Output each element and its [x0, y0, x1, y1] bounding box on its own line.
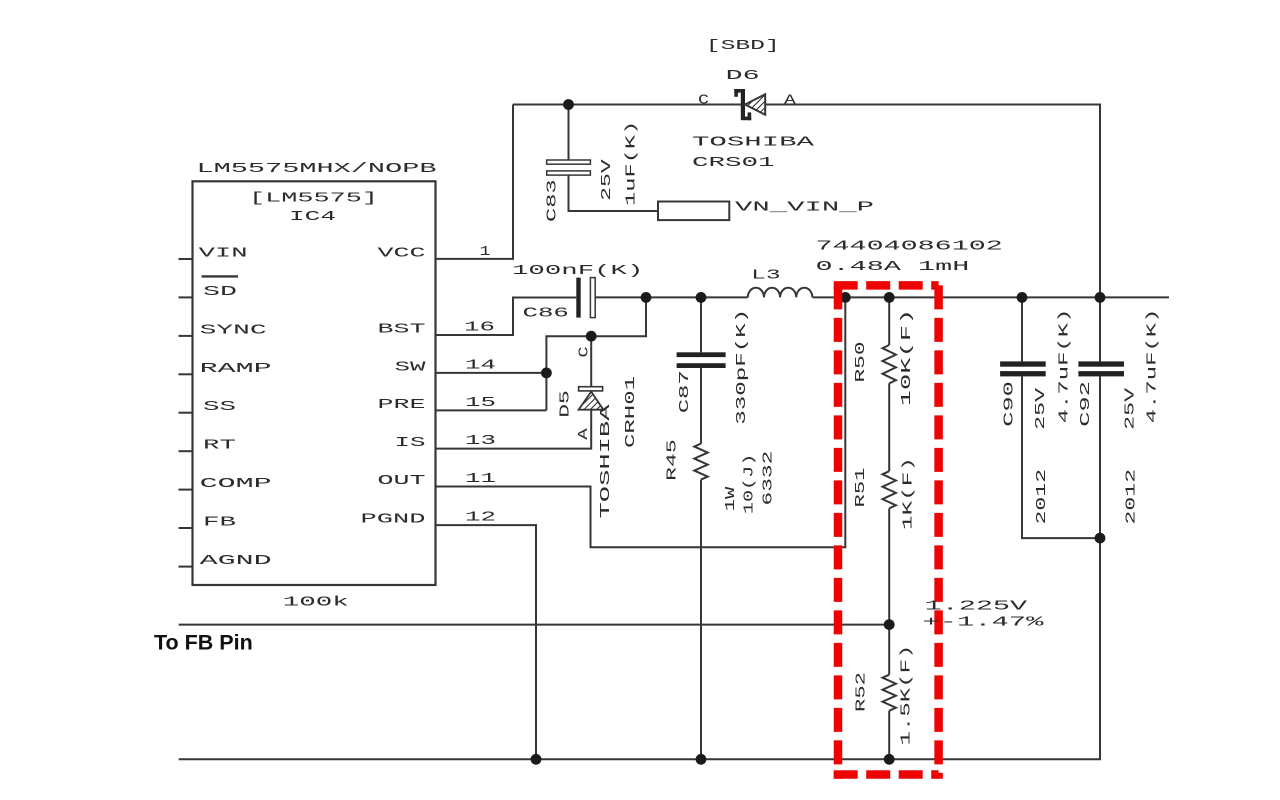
svg-text:6332: 6332 [761, 451, 776, 506]
pin stub SYNC [179, 335, 193, 337]
svg-text:TOSHIBA: TOSHIBA [692, 135, 816, 150]
wire pin11 OUT to output node [436, 297, 846, 547]
svg-text:25V: 25V [600, 158, 615, 201]
wire R51 to FB node [888, 509, 890, 625]
wire pin14 SW [436, 372, 547, 374]
svg-text:4.7uF(K): 4.7uF(K) [1058, 309, 1073, 424]
svg-text:L3: L3 [751, 268, 780, 283]
svg-text:D5: D5 [558, 390, 573, 418]
svg-text:COMP: COMP [200, 477, 272, 492]
wire R50 to R51 [888, 383, 890, 471]
svg-text:10K(F): 10K(F) [900, 309, 915, 407]
capacitor C86 plate right [590, 278, 595, 318]
capacitor C87 plate top [677, 352, 726, 357]
svg-text:TOSHIBA: TOSHIBA [599, 403, 614, 519]
highlight box red dashed bottom edge [834, 770, 939, 779]
svg-text:100nF(K): 100nF(K) [512, 264, 643, 279]
pin stub COMP [179, 489, 193, 491]
junction OUT riser on main rail [840, 292, 851, 303]
svg-text:14: 14 [465, 359, 496, 374]
pin stub VIN [179, 258, 193, 260]
diode D5 triangle [579, 392, 604, 410]
svg-text:PGND: PGND [361, 513, 426, 528]
junction SW pin [541, 368, 552, 379]
resistor R50 zigzag [883, 345, 896, 383]
svg-text:2012: 2012 [1035, 469, 1050, 525]
capacitor C86 plate left [576, 278, 580, 318]
svg-text:To FB Pin: To FB Pin [154, 631, 253, 655]
wire pin12 PGND down [436, 525, 537, 759]
wire R52 to bottom rail [888, 711, 890, 760]
svg-text:SS: SS [203, 400, 236, 415]
capacitor C92 plate bottom [1078, 371, 1124, 376]
svg-text:1K(F): 1K(F) [901, 457, 916, 530]
wire SW net branch [546, 297, 646, 410]
wire pin1 VCC to riser [436, 105, 514, 259]
svg-text:RT: RT [203, 439, 236, 454]
svg-text:4.7uF(K): 4.7uF(K) [1146, 309, 1161, 424]
capacitor C87 plate bottom [677, 363, 726, 368]
wire R50 branch top [888, 297, 890, 345]
svg-text:FB: FB [203, 516, 236, 531]
capacitor C83 plate bottom [547, 171, 591, 175]
junction R45 on ground rail [696, 754, 707, 765]
highlight box red dashed top edge [834, 281, 939, 290]
diode D6 triangle [745, 94, 765, 115]
svg-text:R51: R51 [854, 468, 869, 508]
svg-text:11: 11 [465, 472, 496, 487]
svg-text:100k: 100k [283, 596, 349, 611]
junction C87 on main rail [696, 292, 707, 303]
wire pin15 PRE [436, 409, 547, 411]
pin stub RAMP [179, 373, 193, 375]
inductor L3 [748, 288, 813, 298]
capacitor C92 plate top [1078, 361, 1124, 366]
pin stub AGND [179, 566, 193, 568]
svg-text:16: 16 [464, 321, 495, 336]
svg-text:1W: 1W [724, 485, 739, 511]
svg-text:R52: R52 [855, 672, 870, 712]
pin stub FB [179, 527, 193, 529]
svg-text:25V: 25V [1124, 386, 1139, 430]
svg-text:1: 1 [480, 245, 491, 260]
svg-text:1.5K(F): 1.5K(F) [900, 645, 915, 746]
pin stub SS [179, 412, 193, 414]
svg-text:IS: IS [395, 436, 426, 451]
highlight box red dashed right edge [934, 285, 943, 778]
wire FB net horizontal [179, 624, 890, 626]
junction PGND on ground rail [531, 754, 542, 765]
svg-text:VCC: VCC [378, 246, 426, 261]
resistor R52 zigzag [883, 675, 896, 711]
pin stub SD [179, 296, 193, 298]
svg-text:PRE: PRE [378, 398, 426, 413]
junction C92 on main rail [1095, 292, 1106, 303]
svg-text:IC4: IC4 [289, 210, 336, 225]
diode D6 schottky symbol [734, 89, 751, 120]
svg-text:2012: 2012 [1124, 469, 1139, 525]
svg-text:CRS01: CRS01 [692, 156, 775, 171]
svg-text:LM5575MHX/NOPB: LM5575MHX/NOPB [197, 162, 437, 177]
wire C92 bottom leg [1099, 376, 1101, 538]
svg-text:R45: R45 [665, 439, 680, 481]
capacitor C90 plate bottom [1000, 371, 1046, 376]
capacitor C83 plate top [547, 160, 591, 164]
diode D5 cathode leg [590, 336, 592, 387]
svg-text:RAMP: RAMP [200, 362, 272, 377]
svg-text:R50: R50 [854, 342, 869, 383]
wire C83 to net label [569, 175, 659, 211]
IC U IC4 LM5575 body [193, 181, 436, 585]
svg-text:+-1.47%: +-1.47% [922, 616, 1045, 631]
svg-text:15: 15 [465, 396, 496, 411]
capacitor C87 leg top [700, 297, 702, 352]
svg-text:C: C [578, 347, 593, 358]
svg-text:VIN: VIN [199, 247, 248, 262]
capacitor C90 leg top [1021, 297, 1023, 361]
svg-text:1.225V: 1.225V [925, 600, 1029, 615]
highlight box red dashed left edge [834, 285, 843, 778]
wire main rail C86 to L3 [595, 296, 748, 298]
svg-text:C87: C87 [678, 370, 693, 413]
junction C90 C92 bottom [1095, 533, 1106, 544]
diode D5 cathode bar [579, 387, 603, 391]
junction R50 on main rail [884, 292, 895, 303]
svg-text:C83: C83 [546, 179, 561, 222]
svg-text:C90: C90 [1003, 381, 1018, 427]
svg-text:[LM5575]: [LM5575] [249, 191, 378, 206]
wire bottom ground rail [179, 538, 1100, 759]
svg-text:D6: D6 [726, 69, 760, 84]
junction D5 cathode [586, 331, 597, 342]
junction C83 top [563, 99, 574, 110]
junction C90 on main rail [1017, 292, 1028, 303]
capacitor C83 leg top [568, 105, 570, 161]
svg-text:OUT: OUT [378, 474, 426, 489]
svg-text:330pF(K): 330pF(K) [735, 309, 750, 425]
wire R45 to bottom rail [700, 480, 702, 760]
wire C87 to R45 [700, 368, 702, 444]
svg-text:C: C [698, 94, 709, 109]
svg-text:1uF(K): 1uF(K) [625, 121, 640, 206]
wire FB node to R52 [888, 625, 890, 675]
wire pin16 BST to C86 [436, 298, 577, 336]
resistor R51 zigzag [883, 471, 896, 508]
pin stub RT [179, 450, 193, 452]
svg-text:[SBD]: [SBD] [706, 39, 780, 54]
capacitor C90 plate top [1000, 361, 1046, 366]
svg-text:A: A [577, 427, 592, 440]
svg-text:74404086102: 74404086102 [816, 240, 1003, 255]
svg-text:VN_VIN_P: VN_VIN_P [735, 201, 874, 216]
svg-text:0.48A 1mH: 0.48A 1mH [816, 260, 970, 275]
svg-text:SW: SW [395, 360, 428, 375]
svg-text:C92: C92 [1079, 381, 1094, 427]
junction FB R51 R52 [884, 619, 895, 630]
wire top rail [513, 105, 1100, 298]
svg-text:13: 13 [465, 434, 496, 449]
svg-text:SYNC: SYNC [200, 323, 267, 338]
svg-text:SD: SD [203, 285, 237, 300]
svg-text:BST: BST [378, 323, 426, 338]
wire C90 bottom leg [1022, 376, 1100, 538]
svg-text:10(J): 10(J) [743, 454, 758, 514]
wire main rail L3 to right end [812, 296, 1169, 298]
svg-text:C86: C86 [523, 306, 569, 321]
wire pin13 IS to D5 anode [436, 410, 592, 449]
junction R52 on ground rail [884, 754, 895, 765]
svg-text:25V: 25V [1034, 386, 1049, 430]
capacitor C92 leg top [1099, 297, 1101, 361]
SD overline [202, 275, 239, 277]
resistor R45 zigzag [694, 444, 707, 480]
svg-text:AGND: AGND [200, 554, 272, 569]
svg-text:12: 12 [465, 511, 496, 526]
svg-text:A: A [784, 94, 797, 109]
junction SW net on main rail [641, 292, 652, 303]
svg-text:CRH01: CRH01 [624, 376, 639, 448]
net label box VN_VIN_P [658, 202, 729, 221]
